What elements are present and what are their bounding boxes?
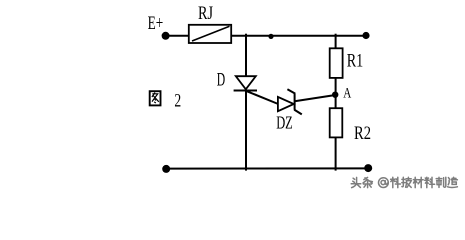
svg-text:R2: R2 — [354, 124, 371, 144]
svg-text:RJ: RJ — [198, 4, 213, 24]
svg-text:D: D — [217, 70, 225, 90]
svg-text:A: A — [343, 85, 351, 101]
svg-text:R1: R1 — [347, 51, 364, 71]
svg-text:DZ: DZ — [276, 113, 293, 133]
svg-text:E+: E+ — [148, 13, 164, 34]
svg-text:2: 2 — [174, 91, 181, 112]
